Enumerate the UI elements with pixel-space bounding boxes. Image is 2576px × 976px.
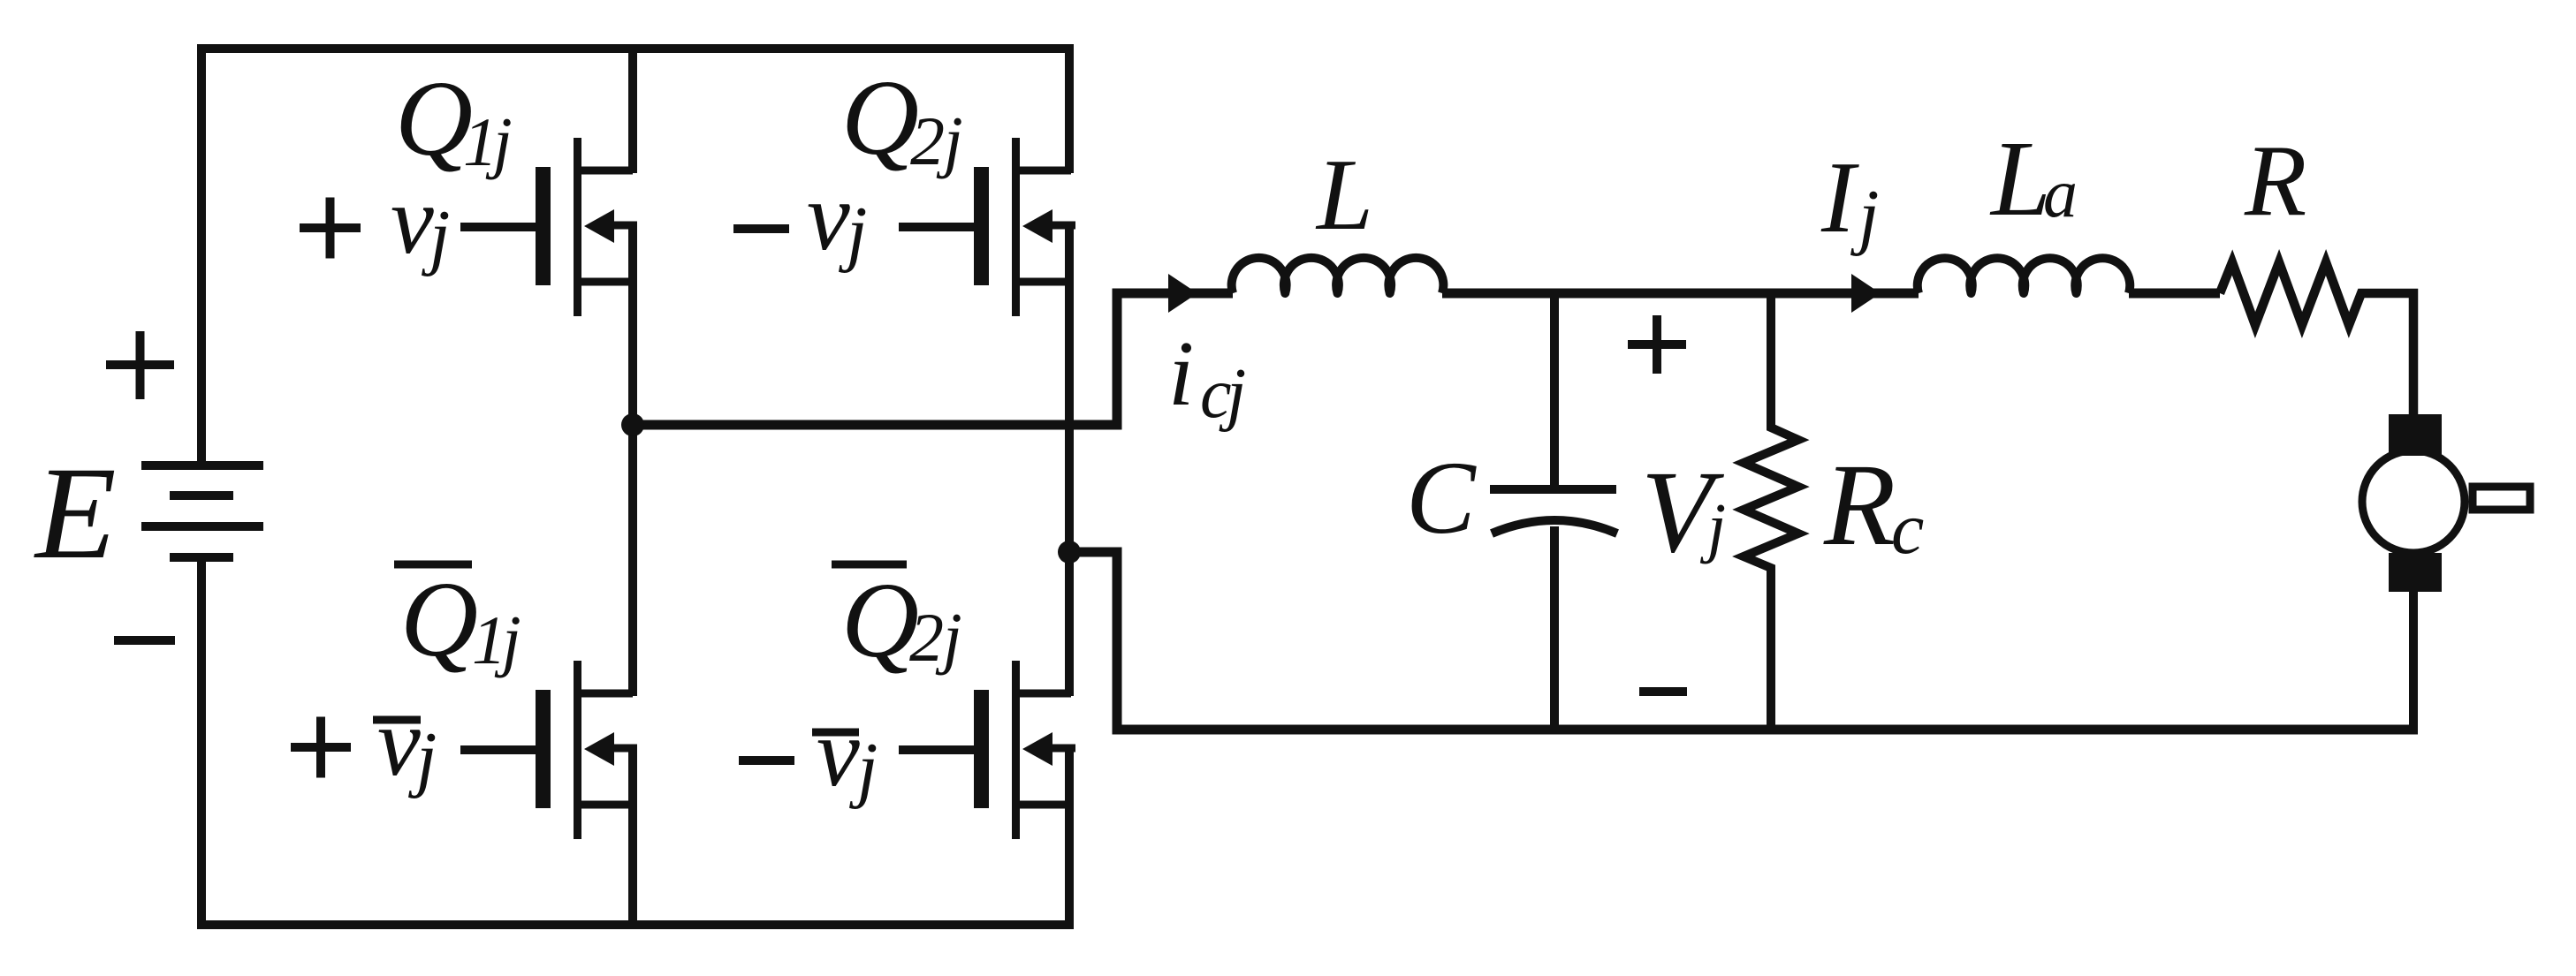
svg-text:Q: Q [841,561,919,680]
svg-text:R: R [1823,439,1896,570]
svg-text:L: L [1989,119,2051,238]
svg-text:v: v [391,166,434,274]
svg-text:Q: Q [395,59,473,178]
svg-text:v: v [807,163,850,270]
svg-text:c: c [1891,488,1924,570]
svg-text:E: E [34,440,117,586]
svg-text:v: v [377,688,421,796]
svg-text:i: i [1168,322,1194,425]
svg-text:L: L [1315,139,1373,251]
svg-text:2: 2 [910,102,945,179]
svg-text:C: C [1406,440,1477,556]
svg-text:v: v [817,699,860,806]
svg-text:I: I [1820,141,1859,253]
svg-text:a: a [2043,155,2078,231]
svg-text:R: R [2244,125,2306,237]
svg-text:Q: Q [841,58,919,178]
svg-text:2: 2 [909,599,944,676]
svg-text:Q: Q [400,560,478,679]
